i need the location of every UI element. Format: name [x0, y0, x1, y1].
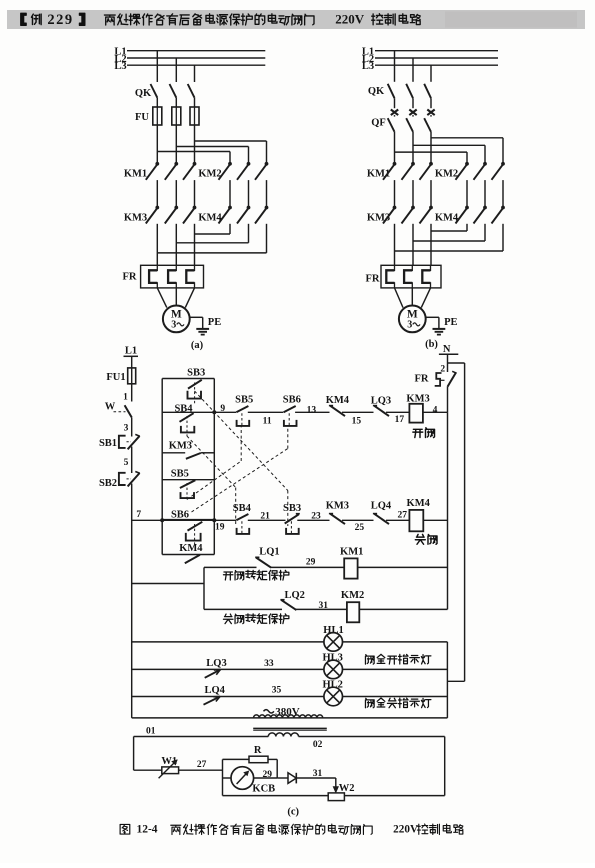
- FR heater element (b): [404, 265, 412, 288]
- svg-text:QF: QF: [371, 118, 386, 129]
- svg-text:5: 5: [124, 458, 129, 468]
- svg-text:LQ1: LQ1: [259, 547, 279, 558]
- wire rung2: [132, 519, 236, 521]
- chain rung node 19 level: [162, 519, 214, 521]
- wire branch to KM2 column 3 (a): [195, 140, 267, 142]
- svg-text:KCB: KCB: [252, 784, 275, 795]
- svg-text:29: 29: [262, 770, 272, 780]
- wire branch to KM2 column 1 (a): [157, 151, 230, 153]
- contactor KM1/KM2 pole 1 (a): [155, 162, 159, 166]
- svg-text:LQ2: LQ2: [284, 590, 304, 601]
- svg-text:KM2: KM2: [435, 169, 458, 180]
- wire FR to motor (b): [395, 288, 404, 308]
- label open-valve: [413, 429, 423, 437]
- svg-text:KM4: KM4: [326, 395, 350, 406]
- contactor KM1/KM2 pole 3 (b): [429, 162, 433, 166]
- wire HL3 rung: [132, 668, 324, 670]
- wire diode to W2: [296, 777, 336, 779]
- contactor KM1/KM2 pole 1 (b): [393, 162, 397, 166]
- switch QK pole 1 (a): [151, 84, 158, 98]
- wire FU1 to W: [131, 384, 133, 402]
- wire SB1 to SB2: [131, 447, 133, 474]
- svg-text:29: 29: [306, 558, 316, 568]
- svg-text:SB5: SB5: [235, 395, 253, 406]
- svg-text:35: 35: [272, 685, 282, 695]
- svg-text:LQ4: LQ4: [204, 685, 225, 696]
- wire W1 branch: [134, 769, 162, 771]
- circuit (a) bus L1: [127, 50, 265, 52]
- contactor KM3/KM4 pole 6 (b): [501, 206, 505, 210]
- wire KM1 rung: [204, 566, 257, 568]
- wire (c) loop right: [444, 737, 446, 796]
- svg-text:KM2: KM2: [198, 169, 221, 180]
- link SB6 chain to SB6 button rung1: [192, 449, 288, 513]
- svg-text:SB3: SB3: [283, 503, 301, 514]
- link SB3 chain to SB3 button rung2: [195, 391, 288, 491]
- svg-text:SB4: SB4: [174, 403, 193, 414]
- wire to FR (a): [175, 224, 177, 265]
- wire rung1: [214, 411, 236, 413]
- contactor KM3/KM4 pole 3 (b): [429, 206, 433, 210]
- changeover cross mark pole 2 (b): [409, 110, 416, 116]
- wire branch to KM2 column 3 (b): [431, 137, 503, 139]
- wire phase-swap return 1 (b): [466, 224, 468, 231]
- circuit (b) bus L1: [375, 50, 498, 52]
- chain rung SB5 level: [162, 479, 214, 481]
- contactor KM3/KM4 pole 1 (b): [393, 206, 397, 210]
- ground PE (a): [196, 328, 209, 330]
- wire bus drop phase 2 (a): [175, 58, 177, 82]
- fuse FU pole 1 (a): [153, 107, 162, 125]
- switch QK pole 3 (a): [188, 84, 195, 98]
- svg-text:KM1: KM1: [340, 547, 363, 558]
- svg-text:LQ3: LQ3: [371, 395, 391, 406]
- svg-text:FU: FU: [135, 112, 149, 123]
- ground PE (b): [433, 328, 446, 330]
- svg-text:15: 15: [352, 417, 362, 427]
- wire bus drop phase 1 (b): [394, 51, 396, 82]
- svg-text:(b): (b): [425, 339, 438, 350]
- contactor KM3/KM4 pole 2 (b): [411, 206, 415, 210]
- svg-text:4: 4: [433, 406, 438, 416]
- wire W to SB1: [131, 417, 133, 436]
- label close-valve: [415, 534, 425, 544]
- svg-text:27: 27: [398, 511, 408, 521]
- fuse FU pole 3 (a): [190, 107, 199, 125]
- svg-text:FR: FR: [123, 272, 137, 283]
- transformer T core: [253, 727, 327, 729]
- link SB5 chain to SB5 button rung1: [187, 461, 241, 500]
- svg-text:KM4: KM4: [179, 543, 203, 554]
- contactor KM3/KM4 pole 1 (a): [155, 206, 159, 210]
- wire HL1 rung: [132, 641, 324, 643]
- wire HL2 rung: [132, 696, 324, 698]
- figure caption: [120, 824, 130, 834]
- contactor KM1/KM2 pole 6 (a): [265, 162, 269, 166]
- motor M 3~ (b): [399, 306, 426, 333]
- wire (c) loop left: [133, 737, 135, 771]
- svg-text:FU1: FU1: [106, 372, 125, 383]
- switch QK pole 2 (b): [406, 84, 413, 98]
- svg-text:FR: FR: [366, 274, 380, 285]
- svg-text:KM2: KM2: [341, 590, 364, 601]
- contactor KM1/KM2 pole 3 (a): [193, 162, 197, 166]
- svg-text:27: 27: [197, 760, 207, 770]
- link SB4 chain to SB4 button rung2: [187, 436, 236, 488]
- svg-text:SB5: SB5: [171, 469, 189, 480]
- wire phase-swap return 2 (a): [248, 224, 250, 243]
- chain rung KM3 level: [162, 452, 185, 454]
- wire to FR (b): [394, 224, 396, 265]
- FR heater element (b): [422, 265, 430, 288]
- svg-text:KM4: KM4: [435, 213, 459, 224]
- FR heater element (a): [186, 265, 194, 288]
- svg-text:HL1: HL1: [323, 625, 343, 636]
- changeover cross mark pole 3 (b): [427, 110, 434, 116]
- wire N to outer rail: [448, 362, 465, 364]
- svg-text:220V: 220V: [335, 11, 365, 26]
- page header text: [21, 13, 26, 25]
- wire meter branch: [223, 777, 232, 779]
- wire down to W2: [335, 778, 337, 790]
- wire SB2 down left rail: [131, 484, 133, 718]
- contactor KM3/KM4 pole 5 (b): [483, 206, 487, 210]
- wire branch to KM2 column 2 (a): [176, 146, 248, 148]
- contactor KM3/KM4 pole 5 (a): [247, 206, 251, 210]
- changeover cross mark pole 1 (b): [391, 110, 398, 116]
- switch QK pole 2 (a): [170, 84, 177, 98]
- chain rung node 9 level: [162, 411, 214, 413]
- label open-valve torque protection: [223, 572, 233, 580]
- transformer T primary winding: [254, 715, 323, 718]
- svg-text:(a): (a): [191, 340, 204, 351]
- fuse FU pole 2 (a): [172, 107, 181, 125]
- svg-text:SB4: SB4: [233, 503, 252, 514]
- contactor KM1/KM2 pole 5 (a): [247, 162, 251, 166]
- switch QK pole 1 (b): [388, 84, 395, 98]
- svg-text:12-4: 12-4: [136, 824, 157, 836]
- wire phase-swap return 1 (a): [229, 224, 231, 234]
- svg-text:33: 33: [264, 659, 274, 669]
- circuit (a) bus L2: [127, 57, 265, 59]
- svg-text:L3: L3: [362, 61, 374, 72]
- svg-text:220V: 220V: [393, 823, 418, 835]
- wire branch to KM2 column 2 (b): [413, 144, 485, 146]
- wire to FR (a): [156, 224, 158, 265]
- circuit (b) bus L2: [375, 57, 498, 59]
- svg-text:QK: QK: [135, 88, 152, 99]
- svg-text:17: 17: [395, 415, 405, 425]
- circuit (a) bus L3: [127, 64, 265, 66]
- svg-text:19: 19: [215, 523, 225, 533]
- wire phase-swap return 2 (b): [484, 224, 486, 241]
- wire to FR (b): [430, 224, 432, 265]
- wire branch to KM2 column 1 (b): [395, 151, 468, 153]
- wire to FR (a): [194, 224, 196, 265]
- svg-text:31: 31: [318, 601, 328, 611]
- wire bus drop phase 3 (b): [430, 65, 432, 82]
- motor M 3~ (a): [163, 306, 190, 333]
- transformer T secondary winding: [268, 733, 298, 737]
- svg-text:11: 11: [263, 417, 272, 427]
- contactor KM1/KM2 pole 2 (b): [411, 162, 415, 166]
- svg-text:KM1: KM1: [124, 169, 147, 180]
- svg-text:21: 21: [260, 511, 270, 521]
- wire KM2 rung: [204, 608, 282, 610]
- svg-text:7: 7: [136, 510, 141, 520]
- contactor KM1/KM2 pole 5 (b): [483, 162, 487, 166]
- contactor KM3/KM4 pole 2 (a): [174, 206, 178, 210]
- svg-text:25: 25: [355, 523, 365, 533]
- svg-text:02: 02: [313, 740, 323, 750]
- wire bus drop phase 1 (a): [156, 51, 158, 82]
- svg-text:SB1: SB1: [99, 438, 117, 449]
- svg-text:QK: QK: [368, 86, 385, 97]
- wire resistor branch: [223, 758, 250, 760]
- contactor KM1/KM2 pole 4 (b): [465, 162, 469, 166]
- svg-text:W: W: [105, 402, 116, 413]
- contactor KM3/KM4 pole 4 (b): [465, 206, 469, 210]
- FR heater element (a): [149, 265, 157, 288]
- wire L1 to FU1: [131, 356, 133, 368]
- breaker QF pole 2 (b): [412, 115, 414, 117]
- lamp rungs right rail: [446, 642, 448, 718]
- svg-text:SB6: SB6: [171, 509, 189, 520]
- svg-text:(c): (c): [287, 807, 299, 818]
- wire to diode: [277, 777, 288, 779]
- svg-text:229: 229: [47, 12, 73, 28]
- svg-text:01: 01: [146, 727, 156, 737]
- label valve-fully-closed lamp: [365, 698, 374, 707]
- switch QK pole 3 (b): [424, 84, 431, 98]
- svg-text:SB2: SB2: [99, 478, 117, 489]
- svg-text:L1: L1: [125, 346, 137, 357]
- contactor KM1/KM2 pole 2 (a): [174, 162, 178, 166]
- svg-text:31: 31: [313, 769, 323, 779]
- wire bus drop phase 3 (a): [194, 65, 196, 82]
- wire transformer rung: [132, 717, 448, 719]
- svg-text:KM3: KM3: [326, 501, 349, 512]
- FR heater element (b): [386, 265, 394, 288]
- wire motor to PE (b): [426, 316, 439, 318]
- page header bar: [7, 10, 585, 29]
- svg-text:PE: PE: [444, 317, 457, 328]
- label valve-fully-open lamp: [365, 655, 374, 664]
- selector chain left rail: [161, 379, 163, 555]
- wire to FR (b): [412, 224, 414, 265]
- svg-text:LQ3: LQ3: [206, 658, 226, 669]
- svg-text:R: R: [254, 745, 262, 756]
- wire N down: [447, 354, 449, 372]
- wire bus drop phase 2 (b): [412, 58, 414, 82]
- chain rung top (SB3 feed): [162, 378, 214, 380]
- breaker QF pole 3 (b): [430, 115, 432, 117]
- svg-text:KM4: KM4: [407, 498, 431, 509]
- wire FR to rung1: [447, 387, 449, 413]
- junction node 9: [212, 410, 216, 414]
- wire feed to torque rungs: [132, 583, 204, 585]
- contactor KM1/KM2 pole 6 (b): [501, 162, 505, 166]
- breaker QF pole 1 (b): [394, 115, 396, 117]
- svg-text:SB6: SB6: [283, 395, 301, 406]
- wire secondary left 01: [134, 736, 269, 738]
- selector chain right rail: [213, 379, 215, 555]
- wire N rail rung1 to KM2 rung: [447, 412, 449, 609]
- wire KCB box left rail: [222, 759, 224, 795]
- svg-text:23: 23: [311, 511, 321, 521]
- contactor KM3/KM4 pole 4 (a): [228, 206, 232, 210]
- wire (c) loop bottom: [223, 795, 329, 797]
- contactor KM3/KM4 pole 6 (a): [265, 206, 269, 210]
- wire phase-swap return 3 (a): [266, 224, 268, 253]
- contactor KM1/KM2 pole 4 (a): [228, 162, 232, 166]
- label ~380V: [264, 710, 274, 713]
- svg-text:KM3: KM3: [169, 441, 192, 452]
- svg-text:PE: PE: [208, 317, 221, 328]
- diode VD: [288, 773, 296, 784]
- svg-text:KM3: KM3: [124, 213, 147, 224]
- svg-text:LQ4: LQ4: [371, 501, 392, 512]
- svg-text:2: 2: [440, 365, 445, 375]
- FR heater element (a): [168, 265, 176, 288]
- svg-text:3: 3: [171, 319, 176, 330]
- label close-valve torque protection: [223, 614, 233, 624]
- svg-text:1: 1: [123, 393, 128, 403]
- wire phase-swap return 3 (b): [502, 224, 504, 251]
- svg-text:3: 3: [407, 319, 412, 330]
- chain rung bottom KM4 level: [162, 554, 214, 556]
- svg-text:3: 3: [124, 423, 129, 433]
- wire secondary right 02: [299, 736, 445, 738]
- junction node 7 on chain: [212, 518, 216, 522]
- wire R-meter join: [276, 759, 278, 778]
- circuit (b) bus L3: [375, 64, 498, 66]
- svg-text:13: 13: [307, 406, 317, 416]
- contactor KM3/KM4 pole 3 (a): [193, 206, 197, 210]
- meter KCB: [231, 767, 254, 790]
- svg-text:SB3: SB3: [187, 368, 205, 379]
- svg-text:FR: FR: [415, 374, 429, 385]
- svg-text:N: N: [443, 344, 451, 355]
- svg-text:KM3: KM3: [406, 393, 429, 404]
- wire motor to PE (a): [190, 316, 203, 318]
- wire FR to motor (a): [157, 288, 167, 308]
- svg-text:L3: L3: [114, 61, 126, 72]
